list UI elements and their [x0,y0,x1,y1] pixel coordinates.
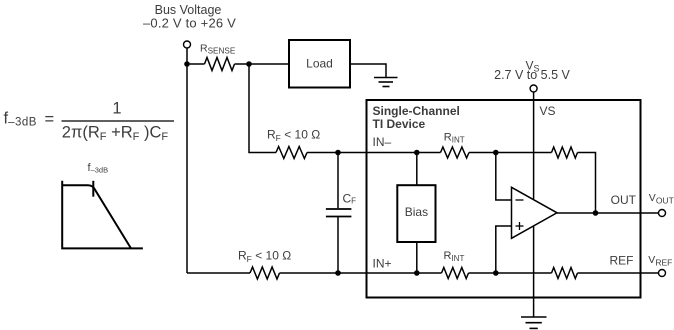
svg-text:REF: REF [610,254,634,268]
svg-text:VS: VS [540,104,556,118]
svg-text:Bias: Bias [405,205,428,219]
svg-text:Load: Load [306,57,333,71]
svg-text:2π(RF +RF )CF: 2π(RF +RF )CF [62,124,169,144]
svg-text:RF < 10 Ω: RF < 10 Ω [267,128,320,144]
svg-text:=: = [45,111,55,129]
svg-text:RF < 10 Ω: RF < 10 Ω [238,249,291,265]
svg-text:TI Device: TI Device [373,117,426,131]
svg-text:Single-Channel: Single-Channel [373,104,460,118]
svg-text:OUT: OUT [611,193,637,207]
svg-text:IN–: IN– [373,135,392,149]
svg-text:1: 1 [112,100,121,118]
svg-text:IN+: IN+ [373,257,392,271]
svg-text:–0.2 V to +26 V: –0.2 V to +26 V [143,16,236,31]
